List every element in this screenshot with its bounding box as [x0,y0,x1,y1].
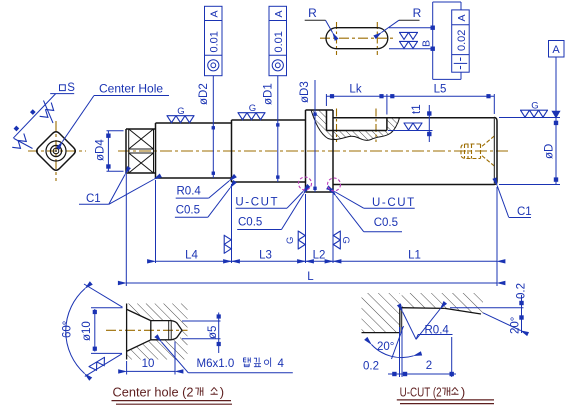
svg-text:A: A [273,10,285,17]
svg-text:øD2: øD2 [198,83,210,105]
svg-text:0.01: 0.01 [209,31,221,52]
svg-text:G: G [340,237,351,244]
svg-text:M6x1.0: M6x1.0 [197,358,235,370]
svg-text:A: A [552,44,560,56]
svg-text:C1: C1 [517,206,532,218]
svg-text:L3: L3 [259,250,272,262]
svg-text:ø5: ø5 [207,326,219,339]
svg-text:): ) [220,385,224,400]
svg-text:G: G [177,106,184,117]
svg-text:øD3: øD3 [299,81,311,103]
svg-text:C0.5: C0.5 [238,217,262,229]
svg-text:0.02: 0.02 [456,30,468,51]
svg-text:U-CUT: U-CUT [235,197,279,209]
svg-text:4: 4 [278,358,285,370]
svg-text:C0.5: C0.5 [374,217,398,229]
svg-text:t1: t1 [411,104,423,114]
svg-text:Center Hole: Center Hole [99,82,163,96]
svg-text:20°: 20° [510,317,522,334]
svg-text:0.2: 0.2 [516,283,528,299]
svg-text:G: G [531,101,538,112]
svg-text:Center hole (2: Center hole (2 [113,385,194,400]
svg-text:20°: 20° [377,341,394,353]
svg-text:A: A [456,14,468,21]
svg-text:C1: C1 [86,193,101,205]
svg-text:øD: øD [544,144,556,159]
svg-text:C0.5: C0.5 [176,205,200,217]
svg-text:L2: L2 [313,250,326,262]
svg-text:L1: L1 [408,249,421,261]
svg-text:R0.4: R0.4 [177,186,202,198]
svg-text:øD1: øD1 [263,83,275,105]
svg-text:ø10: ø10 [81,321,93,341]
svg-text:2: 2 [426,360,432,372]
svg-text:U-CUT (2: U-CUT (2 [400,384,442,399]
svg-text:L: L [307,271,314,283]
svg-text:L4: L4 [185,250,198,262]
svg-text:Lk: Lk [349,83,361,95]
svg-text:R: R [413,6,422,20]
svg-text:øD4: øD4 [95,139,107,161]
svg-text:S: S [67,82,75,94]
svg-text:G: G [249,103,256,114]
svg-text:L5: L5 [434,83,447,95]
svg-text:R: R [308,6,317,20]
svg-text:10: 10 [142,358,155,370]
svg-text:0.01: 0.01 [273,31,285,52]
svg-text:): ) [461,384,465,399]
svg-text:B: B [421,40,433,47]
svg-text:60°: 60° [62,321,74,338]
svg-text:0.2: 0.2 [363,361,379,373]
svg-text:U-CUT: U-CUT [372,197,416,209]
svg-text:G: G [285,237,296,244]
svg-text:A: A [209,10,221,17]
svg-text:R0.4: R0.4 [425,325,450,337]
